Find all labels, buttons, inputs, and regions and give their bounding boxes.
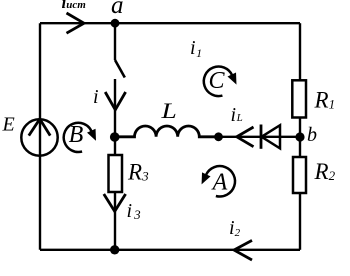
svg-text:A: A [211, 170, 228, 196]
wire R3 to bottom node [114, 192, 116, 250]
wire inductor to node b [219, 136, 301, 138]
svg-text:iист: iист [62, 0, 87, 12]
resistor R2 [293, 157, 306, 193]
svg-text:iL: iL [231, 104, 243, 126]
node a [111, 19, 120, 28]
wire right upper (top corner to R1) [299, 23, 301, 80]
node inductor right [214, 132, 223, 141]
wire left [39, 23, 41, 250]
node b [295, 132, 304, 141]
svg-text:i2: i2 [229, 217, 241, 239]
arrow current iL [237, 127, 254, 147]
wire top [40, 22, 300, 24]
diode VD triangle [262, 125, 281, 148]
wire right R1 to node b [299, 118, 301, 157]
loop B arc [64, 123, 92, 152]
wire bottom [40, 249, 300, 251]
loop C arc [204, 67, 232, 97]
svg-text:i3: i3 [127, 200, 142, 222]
svg-text:C: C [208, 68, 225, 94]
wire node a to switch [114, 23, 116, 60]
svg-text:B: B [69, 122, 84, 148]
inductor L [115, 126, 219, 137]
node middle junction [110, 132, 120, 142]
wire switch to middle node [114, 79, 116, 137]
node bottom [110, 245, 119, 254]
wire middle node to R3 [114, 137, 116, 155]
diode VD cathode bar [260, 125, 263, 149]
switch blade [115, 60, 125, 78]
arrow current i [105, 92, 125, 110]
arrow source current top wire [67, 13, 85, 33]
resistor R3 [109, 155, 123, 192]
loop B arrowhead [88, 130, 95, 140]
arrow current i2 bottom wire [234, 240, 252, 260]
resistor R1 [292, 80, 306, 117]
svg-text:i1: i1 [190, 37, 202, 60]
current source arrow [29, 119, 50, 136]
loop C arrowhead [229, 73, 236, 83]
wire right R2 to bottom corner [299, 193, 301, 250]
svg-text:E: E [2, 114, 15, 136]
svg-text:R3: R3 [127, 160, 149, 185]
svg-text:a: a [111, 0, 124, 19]
svg-text:R1: R1 [314, 88, 336, 113]
arrow current i3 [104, 194, 126, 211]
svg-text:L: L [160, 99, 176, 123]
svg-text:b: b [307, 124, 317, 146]
current source E circle [21, 119, 57, 155]
loop A arc [206, 166, 235, 196]
svg-text:i: i [93, 86, 99, 108]
loop A arrowhead [202, 173, 209, 183]
svg-text:R2: R2 [314, 159, 336, 184]
